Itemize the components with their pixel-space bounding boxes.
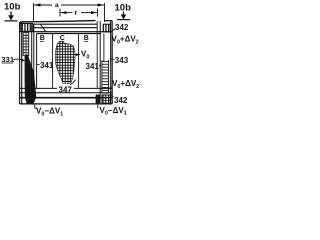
label V0 with leader arrow to blob	[75, 54, 80, 56]
label V0-dV1 bottom-right with hook	[97, 105, 99, 109]
top-left striped contact box	[20, 23, 33, 31]
bottom-right solid black junction	[96, 95, 101, 104]
svg-text:342: 342	[114, 96, 128, 105]
svg-text:331: 331	[2, 55, 15, 64]
dimension r	[60, 9, 98, 17]
svg-text:341: 341	[86, 62, 100, 71]
label 342 top-right with leader	[112, 29, 116, 32]
right column ladder hatch	[102, 60, 109, 94]
top row electrode band	[20, 21, 112, 34]
right column inner line	[99, 21, 101, 95]
pixel region divider left	[52, 34, 54, 89]
arrow under 10b right	[117, 12, 130, 20]
svg-text:342: 342	[115, 23, 129, 32]
svg-text:10b: 10b	[115, 3, 132, 14]
top-right striped contact box	[103, 24, 110, 32]
tick below C	[59, 43, 61, 48]
left column ladder hatch 331	[23, 32, 29, 56]
pixel region divider right	[78, 34, 80, 89]
label 347 with leader	[57, 84, 74, 93]
svg-text:r: r	[75, 10, 78, 17]
label 343 with dash	[111, 58, 115, 60]
bottom row electrode band	[20, 88, 113, 104]
svg-text:V0−ΔV1: V0−ΔV1	[100, 106, 127, 117]
svg-text:V0+ΔV2: V0+ΔV2	[112, 35, 139, 46]
svg-text:a: a	[55, 2, 59, 9]
left column electrode outer lines	[20, 22, 22, 104]
svg-text:V0−ΔV1: V0−ΔV1	[36, 107, 63, 118]
label 341 left with dash	[37, 64, 40, 66]
diagonal mark in top band	[41, 25, 46, 32]
left inner double lines	[32, 24, 34, 88]
label 342 bottom-right with leader	[111, 94, 114, 97]
cross-hatched pixel electrode blob	[55, 41, 75, 84]
label V0-dV1 bottom-left with hook	[35, 105, 37, 109]
pixel region left edge	[36, 34, 38, 89]
bottom-right small hatched box	[102, 95, 110, 104]
svg-text:341: 341	[40, 61, 54, 70]
label V0+dV2 bottom-right with hook	[108, 87, 112, 90]
svg-text:V0+ΔV2: V0+ΔV2	[112, 79, 139, 90]
svg-text:V0: V0	[81, 50, 89, 61]
solid black wedge on left column	[25, 55, 37, 104]
pixel region right edge	[96, 21, 98, 88]
svg-text:343: 343	[115, 56, 129, 65]
dimension a	[34, 3, 105, 22]
arrow under 10b left	[5, 12, 18, 21]
svg-text:10b: 10b	[4, 2, 21, 13]
right column outer double lines	[111, 21, 113, 104]
